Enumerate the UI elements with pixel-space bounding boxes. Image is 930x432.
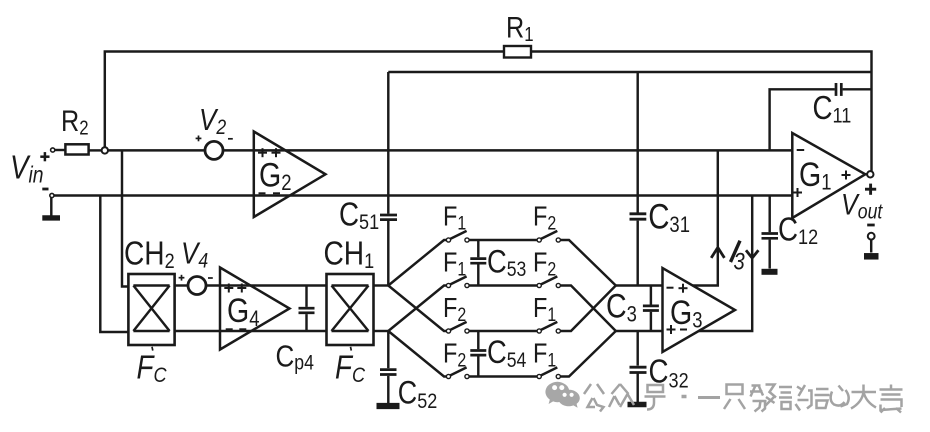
capacitor C54	[470, 331, 486, 377]
source V4	[188, 277, 206, 295]
label C53	[487, 244, 526, 281]
wire Vout feedback rail y=72	[388, 71, 871, 73]
switch row2 left F1	[446, 276, 537, 287]
label C31	[648, 197, 690, 237]
wire rail A to CH2 upper input	[122, 150, 128, 286]
label Vin	[10, 149, 44, 188]
label G3	[670, 293, 702, 332]
sign G1 plus output	[842, 171, 851, 180]
wire top R1 rail	[105, 52, 872, 172]
capacitor C31	[630, 72, 647, 286]
node after R2	[102, 147, 108, 153]
capacitor C52	[380, 331, 397, 403]
wire G3 lower output to rail B	[699, 196, 753, 332]
ground C32	[628, 402, 647, 407]
label C51	[339, 196, 379, 234]
watermark text	[584, 384, 903, 413]
wire CH2 upper output to V4	[175, 284, 189, 286]
svg-text:3: 3	[734, 248, 746, 275]
label F1 row4 right	[533, 339, 556, 371]
wire rail A (G1 minus input rail)	[105, 149, 793, 151]
wire TR node to G3 upper input	[616, 284, 663, 286]
terminal Vout minus with ground	[864, 233, 879, 256]
sign V4 plus	[179, 275, 185, 281]
signs G2 minus minus	[259, 192, 281, 194]
label G2	[259, 156, 291, 195]
sign Vin plus	[40, 152, 49, 161]
wire left fan node B diagonals	[388, 286, 446, 377]
label F2 row4 left	[443, 339, 466, 371]
switch row3 left F2	[446, 322, 537, 333]
terminal Vin minus with ground	[42, 193, 60, 218]
label CH2	[124, 234, 175, 273]
resistor R1	[504, 46, 531, 58]
sign Vout minus	[867, 224, 875, 227]
label V4	[181, 236, 208, 272]
capacitor Cp4	[299, 286, 315, 332]
label C3	[606, 287, 637, 326]
wire G3 upper output to rail A	[693, 150, 718, 285]
label FC under CH1	[335, 347, 366, 387]
label V2	[199, 103, 226, 139]
capacitor C53	[470, 240, 486, 286]
capacitor C32	[630, 331, 647, 402]
wire rail B (G1 plus input rail)	[54, 194, 792, 196]
sign V2 minus	[228, 138, 233, 140]
wire Vin minus to CH2 lower input	[100, 196, 128, 333]
label C11	[813, 90, 852, 128]
label F1 row3 right	[533, 293, 556, 325]
signs G2 plus plus	[258, 148, 281, 157]
switch row4 right F1	[537, 331, 616, 379]
label F2 row2 right	[533, 248, 556, 280]
label Cp4	[276, 339, 315, 375]
signs G4 minus minus	[226, 328, 247, 330]
sign G1 minus top	[797, 149, 805, 151]
op-amp G1	[792, 133, 865, 218]
wire CH1 outputs to fan nodes	[374, 286, 389, 332]
polarity sign marks	[40, 136, 876, 335]
op-amp G4	[220, 268, 290, 350]
label CH1	[324, 234, 375, 273]
wire upper row V4 to CH1	[206, 284, 327, 286]
ground C52	[377, 403, 400, 409]
op-amp G3	[663, 268, 736, 352]
chopper CH2	[128, 274, 174, 345]
sign Vout plus	[865, 184, 876, 195]
capacitor C3	[643, 286, 659, 332]
switch row1 left F1	[446, 231, 537, 242]
label F2 row1 right	[533, 202, 556, 234]
label G1	[799, 156, 831, 195]
label F1 row1 left	[443, 202, 466, 234]
label F2 row3 left	[443, 293, 466, 325]
sign V2 plus	[196, 136, 202, 142]
label C12	[778, 211, 818, 249]
watermark wechat logo	[545, 382, 579, 409]
resistor R2	[51, 144, 102, 154]
signs G3 lower plus minus	[667, 325, 688, 334]
arrow I3 up	[711, 248, 724, 258]
wire lower row CH2 to CH1	[175, 330, 327, 332]
label C54	[487, 335, 527, 372]
arrow I3 down	[746, 250, 758, 258]
signs G3 upper minus plus	[667, 284, 688, 293]
signs G4 plus plus	[224, 284, 246, 293]
switch row4 left F2	[446, 367, 537, 378]
label R1	[506, 10, 534, 45]
label R2	[61, 104, 89, 139]
switch row3 right F1	[537, 286, 616, 334]
node Vout	[865, 171, 873, 177]
label F1 row2 left	[443, 248, 466, 280]
label I3	[731, 241, 746, 275]
sign G1 plus bottom	[793, 188, 802, 197]
label FC under CH2	[137, 347, 168, 387]
source V2	[205, 141, 223, 159]
op-amp G2	[254, 132, 326, 218]
label Vout	[841, 188, 884, 224]
wire left fan node T diagonals	[388, 240, 446, 331]
capacitor C51	[380, 72, 397, 286]
sign Vin minus	[42, 188, 48, 191]
ground C12	[762, 269, 778, 275]
chopper CH1	[327, 274, 374, 345]
label C32	[649, 353, 689, 393]
label G4	[227, 292, 259, 331]
label C52	[398, 376, 437, 414]
sign V4 minus	[208, 277, 213, 279]
capacitor C11	[770, 83, 872, 150]
capacitor C12	[762, 196, 779, 269]
wire BR node to G3 lower input	[616, 330, 663, 332]
switch row1 right F2	[537, 231, 616, 286]
switch row2 right F2	[537, 276, 616, 331]
